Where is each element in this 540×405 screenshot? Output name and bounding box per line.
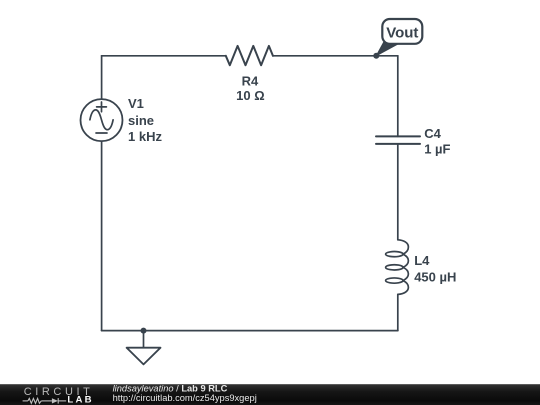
logo squiggle wire <box>23 398 67 404</box>
junction dot at ground tap <box>141 328 147 334</box>
node Vout flag tail <box>376 43 398 56</box>
inductor L4 <box>386 240 409 295</box>
svg-text:V1: V1 <box>128 96 144 111</box>
logo diode triangle <box>52 398 58 403</box>
svg-text:450 µH: 450 µH <box>414 270 456 285</box>
junction dot at Vout tap <box>373 53 379 59</box>
V1 plus sign <box>97 102 107 112</box>
svg-text:R4: R4 <box>242 74 259 89</box>
svg-text:L4: L4 <box>414 253 430 268</box>
node Vout flag box <box>382 19 422 44</box>
svg-text:http://circuitlab.com/cz54yps9: http://circuitlab.com/cz54yps9xgepj <box>113 393 257 403</box>
svg-text:LAB: LAB <box>67 395 93 405</box>
voltage source V1 <box>81 99 123 141</box>
svg-text:Vout: Vout <box>386 24 418 41</box>
wire right vertical (L4 bottom to bottom wire) <box>397 294 399 330</box>
svg-text:10 Ω: 10 Ω <box>236 88 265 103</box>
ground triangle <box>127 348 161 365</box>
capacitor C4 <box>376 136 420 144</box>
svg-text:1 kHz: 1 kHz <box>128 129 162 144</box>
wire right vertical (C4 bottom plate to L4 top) <box>397 144 399 240</box>
svg-text:sine: sine <box>128 113 154 128</box>
svg-text:1 µF: 1 µF <box>424 142 450 157</box>
wire top-right horizontal (resistor to corner) <box>273 55 398 57</box>
wire left vertical (top corner to V1 top) <box>101 56 103 99</box>
svg-text:C4: C4 <box>424 126 441 141</box>
wire right vertical (corner to C4 top plate) <box>397 56 399 137</box>
wire left vertical (V1 bottom to bottom wire) <box>101 141 103 330</box>
ground stub <box>143 331 145 348</box>
wire bottom horizontal <box>102 330 398 332</box>
resistor R4 <box>226 46 273 65</box>
V1 minus sign <box>96 132 107 134</box>
V1 sine wave <box>90 110 113 130</box>
wire top-left horizontal (V1 top to resistor) <box>102 55 226 57</box>
